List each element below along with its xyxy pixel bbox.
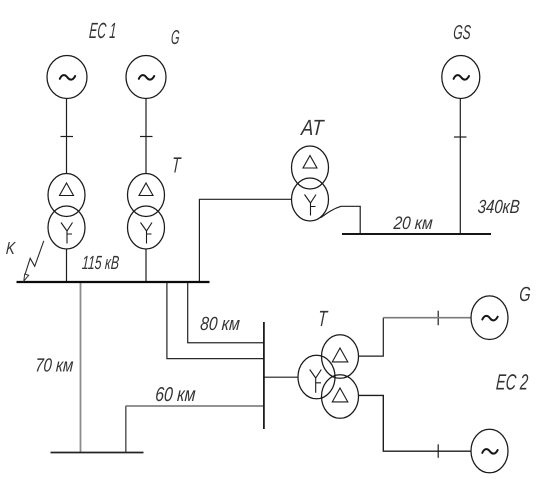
svg-text:60 км: 60 км (155, 384, 197, 406)
svg-text:G: G (170, 27, 180, 49)
svg-text:20 км: 20 км (392, 213, 433, 233)
svg-text:EC 1: EC 1 (88, 18, 117, 43)
svg-text:EC 2: EC 2 (495, 370, 529, 395)
svg-text:115 кВ: 115 кВ (81, 253, 120, 274)
svg-text:GS: GS (453, 22, 472, 44)
svg-text:80 км: 80 км (200, 314, 241, 335)
svg-text:G: G (519, 283, 532, 306)
svg-text:AT: AT (299, 115, 326, 140)
svg-text:70 км: 70 км (35, 356, 74, 377)
svg-text:340кВ: 340кВ (477, 197, 521, 218)
